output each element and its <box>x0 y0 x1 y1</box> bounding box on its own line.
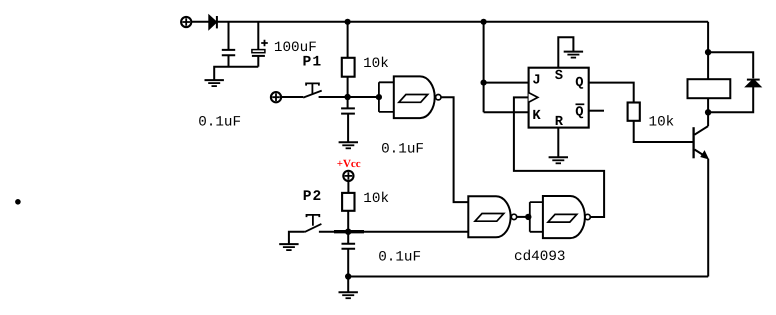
clock triangle <box>529 93 538 103</box>
NAND U1B schmitt glyph <box>475 214 504 222</box>
relay K1 coil <box>688 79 731 98</box>
wire relay bottom <box>707 98 709 126</box>
svg-text:10k: 10k <box>649 114 675 130</box>
resistor R3 10k <box>628 103 694 143</box>
svg-text:Q: Q <box>575 106 583 121</box>
resistor R1 10k <box>342 22 355 97</box>
svg-text:cd4093: cd4093 <box>514 249 565 265</box>
transistor Q1 <box>694 126 709 159</box>
NAND U1B body <box>468 196 510 237</box>
wire J/K branch <box>484 22 529 113</box>
wire R to ground <box>557 128 559 158</box>
wire U1C out to clock <box>514 97 604 217</box>
terminal Vcc + <box>343 171 353 181</box>
node dot J branch top <box>481 19 487 25</box>
node dot top rail R1 <box>345 19 351 25</box>
NAND U1C schmitt glyph <box>548 214 577 222</box>
ground G4 <box>339 292 358 298</box>
wire P2 left to ground <box>289 232 305 244</box>
capacitor C1 0.1uF <box>222 22 235 67</box>
ground G1 <box>205 80 224 86</box>
svg-text:S: S <box>555 69 563 84</box>
svg-text:P2: P2 <box>303 189 323 205</box>
svg-text:10k: 10k <box>363 56 389 72</box>
wire U1B out <box>517 216 530 218</box>
wire gateA out to gateB in <box>441 97 468 202</box>
svg-text:J: J <box>532 74 540 89</box>
svg-text:0.1uF: 0.1uF <box>381 142 424 158</box>
svg-text:K: K <box>532 109 541 124</box>
pushbutton P1 <box>303 83 322 97</box>
node dot U1B out <box>525 214 531 220</box>
NAND U1C input bracket <box>530 202 543 232</box>
ground G2 <box>339 142 358 148</box>
wire Qbar stub <box>589 110 604 112</box>
svg-text:P1: P1 <box>303 55 323 71</box>
wire to ground <box>347 277 349 293</box>
NAND U1A input bracket <box>379 82 394 112</box>
terminal P1 + <box>271 92 281 102</box>
wire <box>191 21 209 23</box>
resistor R2 10k <box>342 181 354 231</box>
svg-text:Q: Q <box>575 76 583 91</box>
NAND U1C bubble <box>585 214 590 219</box>
wire <box>319 96 379 98</box>
node dot bottom junction <box>345 273 351 279</box>
wire <box>282 96 304 98</box>
ground G5 S pin <box>564 52 583 58</box>
NAND U1C body <box>543 196 585 238</box>
svg-text:0.1uF: 0.1uF <box>378 249 421 265</box>
wire S to ground <box>558 37 573 67</box>
node dot gate A input <box>376 94 382 100</box>
terminal supply + <box>181 17 191 27</box>
wire to diode D2 <box>708 52 753 112</box>
wire emitter down <box>707 159 709 277</box>
wire thick overlap <box>334 230 364 233</box>
ground G6 R pin <box>549 157 568 163</box>
NAND U1A schmitt glyph <box>399 95 428 103</box>
pushbutton P2 <box>305 215 322 232</box>
wire cap join <box>214 67 258 80</box>
svg-text:0.1uF: 0.1uF <box>198 115 241 131</box>
capacitor C3 0.1uF <box>341 97 355 142</box>
node dot relay top <box>705 49 711 55</box>
NAND U1A bubble <box>436 95 441 100</box>
flipflop U2 box <box>529 68 589 128</box>
wire Q to R3 <box>589 83 634 103</box>
wire P2 to gate B <box>319 231 468 233</box>
wire top rail <box>217 21 708 23</box>
svg-text:10k: 10k <box>363 191 389 207</box>
NAND U1B bubble <box>511 214 516 219</box>
capacitor C2 100uF electrolytic <box>252 22 268 67</box>
svg-text:+Vcc: +Vcc <box>337 158 361 170</box>
node dot P1 junction <box>344 94 350 100</box>
node dot relay bottom <box>705 109 711 115</box>
node dot J <box>481 80 487 86</box>
wire top rail to relay <box>707 22 709 79</box>
wire bottom rail <box>348 276 708 278</box>
capacitor C4 0.1uF <box>342 232 356 277</box>
label Qbar <box>575 104 584 120</box>
NAND U1A body <box>394 76 435 118</box>
diode D1 <box>209 16 217 28</box>
node dot P2 junction <box>345 229 351 235</box>
diode D2 flyback <box>747 80 760 87</box>
bullet <box>15 199 21 205</box>
ground G3 <box>279 244 298 250</box>
